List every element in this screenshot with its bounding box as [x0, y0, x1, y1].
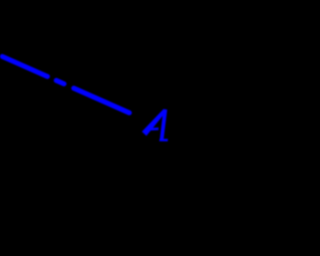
A left leg: [142, 109, 167, 136]
A right leg: [160, 109, 168, 141]
A bottom-right serif foot: [159, 139, 168, 142]
node A label (italic capital A): [142, 109, 168, 141]
wire: blue line, solid then dash then solid: [2, 57, 129, 113]
A crossbar: [146, 128, 159, 131]
